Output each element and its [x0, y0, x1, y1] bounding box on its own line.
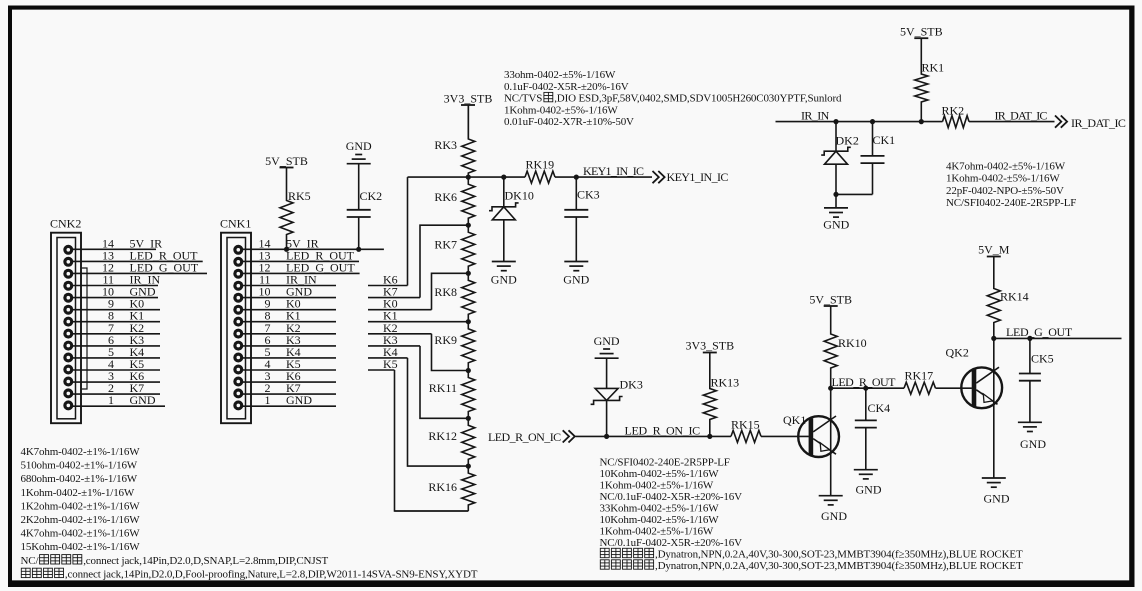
node 5V_IR at CK2 [356, 247, 361, 252]
capacitor CK1 [861, 122, 896, 195]
svg-text:1K2ohm-0402-±1%-1/16W: 1K2ohm-0402-±1%-1/16W [21, 500, 141, 512]
ladder node 2 [466, 223, 471, 228]
svg-text:QK2: QK2 [946, 346, 969, 360]
CNK2 pin 5 wire K4 [72, 345, 160, 359]
svg-text:GND: GND [130, 393, 156, 407]
diode DK2 [821, 122, 859, 195]
CNK2 pin 10 wire GND [72, 285, 158, 299]
wire K0 to ladder node 3 [432, 273, 469, 309]
transistor QK1 [783, 413, 839, 457]
svg-text:33Kohm-0402-±5%-1/16W: 33Kohm-0402-±5%-1/16W [600, 503, 720, 515]
resistor RK5 [280, 168, 311, 250]
svg-text:RK5: RK5 [288, 189, 311, 203]
svg-text:IR_DAT_IC: IR_DAT_IC [1071, 116, 1126, 130]
svg-text:10Kohm-0402-±5%-1/16W: 10Kohm-0402-±5%-1/16W [600, 468, 720, 480]
wire CK1 to DK2 ground join [836, 193, 873, 195]
resistor RK17 [904, 369, 936, 395]
CNK2 pin 2 wire K7 [72, 381, 160, 395]
wire QK1 collector-emitter vertical [830, 388, 832, 496]
wire LED_G_OUT net [994, 337, 1122, 339]
wire K2 to ladder node 5 [432, 334, 469, 371]
CNK1 pin 7 wire K2 [242, 321, 336, 335]
CNK2 pin 12 wire LED_G_OUT [72, 260, 207, 274]
resistor RK14 [987, 257, 1028, 339]
ladder node 7 [466, 464, 471, 469]
svg-text:GND: GND [821, 509, 847, 523]
wire LED_R_OUT net [831, 387, 972, 389]
resistor RK10 [824, 306, 866, 388]
CNK2 pin 6 wire K3 [72, 333, 160, 347]
CNK1 pin 9 wire K0 [242, 297, 336, 311]
svg-text:,DIO ESD,3pF,58V,0402,SMD,SDV1: ,DIO ESD,3pF,58V,0402,SMD,SDV1005H260C03… [554, 93, 842, 105]
resistor RK16 [428, 466, 474, 511]
CNK1 pin 3 wire K6 [242, 369, 336, 383]
wire to ground DK2 [835, 194, 837, 208]
resistor RK13 [703, 353, 739, 437]
wire K3 to ladder node 6 [420, 346, 468, 418]
ground below DK10 [491, 262, 517, 287]
svg-text:DK2: DK2 [836, 134, 859, 148]
svg-text:,connect jack,14Pin,D2.0,D,Foo: ,connect jack,14Pin,D2.0,D,Fool-proofing… [65, 568, 478, 580]
svg-text:5V_M: 5V_M [978, 243, 1010, 257]
node IR at RK1 [919, 119, 924, 124]
svg-text:3V3_STB: 3V3_STB [444, 92, 493, 106]
svg-text:CK1: CK1 [873, 133, 896, 147]
node LED_G_OUT at RK14 [991, 336, 996, 341]
ladder node 6 [466, 416, 471, 421]
svg-text:5V_STB: 5V_STB [265, 154, 308, 168]
svg-text:0.1uF-0402-X5R-±20%-16V: 0.1uF-0402-X5R-±20%-16V [504, 81, 629, 93]
CNK1 pin 12 wire LED_G_OUT [242, 260, 359, 274]
CNK1 pin 5 wire K4 [242, 345, 336, 359]
CNK2 pin 1 wire GND [72, 393, 165, 407]
connector CNK1 pins [233, 245, 243, 411]
svg-text:510ohm-0402-±1%-1/16W: 510ohm-0402-±1%-1/16W [21, 460, 138, 472]
net stub K4 [368, 345, 408, 359]
capacitor CK3 [564, 177, 599, 261]
svg-text:10Kohm-0402-±5%-1/16W: 10Kohm-0402-±5%-1/16W [600, 514, 720, 526]
wire K6 to ladder node 1 [407, 177, 409, 285]
svg-text:KEY1_IN_IC: KEY1_IN_IC [667, 170, 729, 184]
net stub K2 [368, 321, 432, 335]
svg-text:GND: GND [856, 483, 882, 497]
annotation block top-right [946, 161, 1076, 210]
svg-text:NC/TVS: NC/TVS [504, 93, 542, 105]
ground below CK5 [1018, 422, 1046, 451]
resistor RK12 [428, 418, 474, 466]
connector CNK2 pins [63, 245, 73, 411]
svg-text:CNK1: CNK1 [220, 217, 251, 231]
svg-text:,Dynatron,NPN,0.2A,40V,30-300,: ,Dynatron,NPN,0.2A,40V,30-300,SOT-23,MMB… [655, 549, 1023, 561]
svg-text:1Kohm-0402-±5%-1/16W: 1Kohm-0402-±5%-1/16W [946, 173, 1060, 185]
resistor RK7 [434, 225, 474, 273]
svg-text:RK14: RK14 [1000, 290, 1029, 304]
CNK1 pin 1 wire GND [242, 393, 336, 407]
svg-text:KEY1_IN_IC: KEY1_IN_IC [583, 164, 644, 178]
svg-text:4K7ohm-0402-±1%-1/16W: 4K7ohm-0402-±1%-1/16W [21, 528, 141, 540]
svg-text:680ohm-0402-±1%-1/16W: 680ohm-0402-±1%-1/16W [21, 473, 138, 485]
capacitor CK2 [347, 164, 382, 250]
capacitor CK4 [855, 388, 890, 470]
node LED_R_OUT at RK10 [828, 386, 833, 391]
ladder node 3 [466, 271, 471, 276]
CNK1 pin 14 wire 5V_IR [242, 236, 384, 250]
svg-text:GND: GND [286, 393, 312, 407]
CNK2 pin 4 wire K5 [72, 357, 160, 371]
CNK1 pin 6 wire K3 [242, 333, 336, 347]
ground above DK3 [594, 334, 620, 358]
offpage connector IR_DAT_IC [1055, 116, 1126, 131]
svg-text:RK10: RK10 [838, 336, 867, 350]
CNK1 pin 13 wire LED_R_OUT [242, 248, 359, 262]
node LED_R_OUT at CK4 [863, 386, 868, 391]
svg-text:RK12: RK12 [428, 429, 457, 443]
svg-text:GND: GND [346, 139, 372, 153]
svg-text:5V_STB: 5V_STB [900, 25, 943, 39]
offpage connector KEY1_IN_IC [653, 170, 729, 184]
ground below CK3 [563, 262, 589, 287]
resistor RK19 [525, 158, 555, 184]
ground below CK4 [854, 470, 882, 497]
svg-text:CK2: CK2 [360, 189, 383, 203]
svg-text:LED_G_OUT: LED_G_OUT [1006, 325, 1073, 339]
node LED_R_ON at RK13 [707, 434, 712, 439]
resistor RK9 [434, 322, 474, 371]
power 5V_STB at RK10 [809, 293, 852, 307]
CNK1 pin 8 wire K1 [242, 309, 336, 323]
resistor RK8 [434, 273, 474, 321]
svg-text:1: 1 [265, 393, 271, 407]
annotation block bottom-left [21, 446, 478, 580]
power 3V3_STB at RK13 [685, 339, 734, 353]
svg-text:GND: GND [491, 273, 517, 287]
node KEY1 at DK10 [501, 175, 506, 180]
net stub K5 [368, 357, 398, 371]
svg-text:1Kohm-0402-±1%-1/16W: 1Kohm-0402-±1%-1/16W [21, 487, 135, 499]
diode DK10 [489, 177, 534, 261]
svg-text:RK16: RK16 [428, 480, 457, 494]
svg-text:,Dynatron,NPN,0.2A,40V,30-300,: ,Dynatron,NPN,0.2A,40V,30-300,SOT-23,MMB… [655, 560, 1023, 572]
svg-text:CNK2: CNK2 [50, 217, 81, 231]
power 5V_STB at RK5 [265, 154, 308, 168]
svg-text:0.01uF-0402-X7R-±10%-50V: 0.01uF-0402-X7R-±10%-50V [504, 116, 634, 128]
wire K4 to ladder node 7 [408, 358, 469, 466]
node LED_G_OUT at CK5 [1027, 336, 1032, 341]
svg-text:NC/: NC/ [21, 555, 40, 567]
annotation block mid-top [504, 69, 842, 128]
CNK2 pin 11 wire IR_IN [72, 273, 160, 287]
power 5V_STB at RK1 [900, 25, 943, 39]
svg-text:4K7ohm-0402-±5%-1/16W: 4K7ohm-0402-±5%-1/16W [946, 161, 1066, 173]
svg-text:GND: GND [1020, 437, 1046, 451]
connector CNK1 body [221, 233, 251, 424]
svg-text:CK3: CK3 [577, 188, 600, 202]
svg-text:DK10: DK10 [505, 189, 534, 203]
svg-text:22pF-0402-NPO-±5%-50V: 22pF-0402-NPO-±5%-50V [946, 185, 1064, 197]
net stub K3 [368, 333, 420, 347]
ladder node 5 [466, 368, 471, 373]
offpage connector LED_R_ON_IC [488, 430, 575, 444]
svg-text:RK7: RK7 [434, 238, 457, 252]
svg-text:RK9: RK9 [434, 333, 457, 347]
wire ladder bottom loop [395, 510, 469, 512]
node 5V_IR at RK5 [284, 247, 289, 252]
svg-text:RK1: RK1 [922, 61, 945, 75]
wire QK2 collector-emitter vertical [993, 338, 995, 478]
ladder node 1 [466, 175, 471, 180]
CNK2 pin 3 wire K6 [72, 369, 160, 383]
svg-text:LED_R_ON_IC: LED_R_ON_IC [625, 424, 701, 438]
annotation block bottom-right [600, 457, 1023, 573]
svg-text:CK4: CK4 [868, 401, 891, 415]
svg-text:5V_STB: 5V_STB [809, 293, 852, 307]
svg-text:1Kohm-0402-±5%-1/16W: 1Kohm-0402-±5%-1/16W [600, 480, 714, 492]
svg-text:NC/SFI0402-240E-2R5PP-LF: NC/SFI0402-240E-2R5PP-LF [600, 457, 730, 469]
node KEY1 at CK3 [574, 175, 579, 180]
ground below QK1 [819, 496, 848, 523]
CNK2 pin 13 wire LED_R_OUT [72, 248, 202, 262]
net stub K1 [368, 309, 468, 323]
svg-text:LED_R_ON_IC: LED_R_ON_IC [488, 430, 561, 444]
svg-text:RK3: RK3 [434, 138, 457, 152]
CNK1 pin 2 wire K7 [242, 381, 336, 395]
svg-text:15Kohm-0402-±1%-1/16W: 15Kohm-0402-±1%-1/16W [21, 541, 141, 553]
CNK1 pin 4 wire K5 [242, 357, 336, 371]
svg-text:RK17: RK17 [905, 369, 934, 383]
svg-text:1Kohm-0402-±5%-1/16W: 1Kohm-0402-±5%-1/16W [504, 104, 618, 116]
svg-text:GND: GND [594, 334, 620, 348]
transistor QK2 [946, 346, 1003, 409]
wire IR_IN net [776, 121, 1055, 123]
CNK2 pin 9 wire K0 [72, 297, 160, 311]
svg-text:IR_DAT_IC: IR_DAT_IC [995, 108, 1048, 122]
wire KEY1_IN_IC net [408, 176, 653, 178]
connector CNK2 body [51, 233, 81, 424]
svg-text:2K2ohm-0402-±1%-1/16W: 2K2ohm-0402-±1%-1/16W [21, 514, 141, 526]
diode DK3 [591, 358, 643, 436]
svg-text:CK5: CK5 [1031, 352, 1054, 366]
power 3V3_STB at ladder [444, 92, 493, 140]
wire K7 to ladder node 2 [420, 225, 468, 297]
svg-text:RK13: RK13 [711, 376, 740, 390]
resistor RK11 [429, 371, 475, 419]
node IR at DK2 [833, 119, 838, 124]
svg-text:IR_IN: IR_IN [801, 108, 830, 122]
node ground join [833, 192, 838, 197]
capacitor CK5 [1019, 338, 1054, 422]
resistor RK1 [915, 38, 944, 121]
ground below QK2 [982, 478, 1010, 506]
svg-text:QK1: QK1 [783, 413, 806, 427]
ladder node 4 [466, 319, 471, 324]
CNK2 pin 14 wire 5V_IR [72, 236, 162, 250]
CNK2 pin 7 wire K2 [72, 321, 160, 335]
svg-text:RK6: RK6 [434, 190, 457, 204]
wire LED_R_ON_IC net [576, 435, 809, 437]
connector CNK2 key bracket [82, 268, 87, 389]
node IR at CK1 [870, 119, 875, 124]
svg-text:GND: GND [984, 492, 1010, 506]
CNK1 pin 10 wire GND [242, 285, 336, 299]
svg-text:3V3_STB: 3V3_STB [685, 339, 734, 353]
power 5V_M at RK14 [978, 243, 1010, 257]
resistor RK2 [942, 104, 970, 128]
net stub K0 [368, 297, 432, 311]
wire K5 to ladder bottom [395, 370, 469, 511]
resistor RK6 [434, 177, 474, 225]
resistor RK3 [434, 105, 474, 177]
svg-text:GND: GND [823, 218, 849, 232]
CNK2 pin 8 wire K1 [72, 309, 160, 323]
svg-text:RK8: RK8 [434, 285, 457, 299]
ground below DK2 [823, 208, 849, 232]
svg-text:33ohm-0402-±5%-1/16W: 33ohm-0402-±5%-1/16W [504, 69, 616, 81]
node LED_R_ON at DK3 [604, 434, 609, 439]
svg-text:RK2: RK2 [942, 104, 965, 118]
svg-text:NC/SFI0402-240E-2R5PP-LF: NC/SFI0402-240E-2R5PP-LF [946, 197, 1076, 209]
svg-text:RK19: RK19 [526, 158, 555, 172]
net stub K7 [368, 285, 420, 299]
svg-text:RK11: RK11 [429, 381, 457, 395]
svg-text:DK3: DK3 [620, 378, 643, 392]
svg-text:GND: GND [563, 273, 589, 287]
svg-text:,connect jack,14Pin,D2.0,D,SNA: ,connect jack,14Pin,D2.0,D,SNAP,L=2.8mm,… [83, 555, 328, 567]
CNK1 pin 11 wire IR_IN [242, 273, 336, 287]
svg-text:RK15: RK15 [731, 418, 760, 432]
svg-text:4K7ohm-0402-±1%-1/16W: 4K7ohm-0402-±1%-1/16W [21, 446, 141, 458]
svg-text:K5: K5 [383, 357, 398, 371]
resistor RK15 [731, 418, 761, 443]
net stub K6 [368, 273, 408, 287]
svg-text:NC/0.1uF-0402-X5R-±20%-16V: NC/0.1uF-0402-X5R-±20%-16V [600, 537, 743, 549]
svg-text:NC/0.1uF-0402-X5R-±20%-16V: NC/0.1uF-0402-X5R-±20%-16V [600, 491, 743, 503]
svg-text:1Kohm-0402-±5%-1/16W: 1Kohm-0402-±5%-1/16W [600, 526, 714, 538]
svg-text:1: 1 [108, 393, 114, 407]
ground above CK2 [346, 139, 372, 164]
